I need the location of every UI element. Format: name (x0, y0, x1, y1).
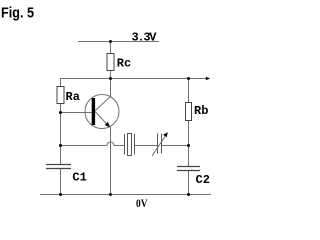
crystal X1 (125, 134, 135, 156)
svg-text:Rc: Rc (117, 57, 131, 71)
wire: right branch from collector rail to Rb (188, 79, 190, 103)
wire: collector rail (60, 78, 206, 80)
junction: crystal branch right node (187, 144, 190, 147)
capacitor C2 (177, 167, 210, 188)
wire: Rc top lead (110, 42, 112, 54)
svg-text:Rb: Rb (194, 104, 208, 118)
resistor Rb (186, 103, 209, 121)
wire: crystal to trimmer capacitor segment (135, 145, 158, 147)
svg-text:C2: C2 (196, 173, 210, 187)
svg-text:0V: 0V (136, 196, 148, 209)
junction: C1 at ground rail (59, 193, 62, 196)
wire: C1 bottom to ground rail (60, 169, 62, 195)
wire: node down to C1 (60, 146, 62, 165)
resistor Rc (107, 54, 131, 71)
wire: Ra bottom to base node (60, 104, 62, 113)
wire: Rc bottom lead to collector node (110, 71, 112, 79)
wire: C2 bottom to ground rail (188, 171, 190, 195)
transistor Q1 (85, 95, 119, 129)
junction: C2 at ground rail (187, 193, 190, 196)
junction: emitter at ground rail (109, 193, 112, 196)
wire: trimmer capacitor to right node (162, 145, 189, 147)
junction: Rc at supply rail (109, 40, 112, 43)
wire: Rb bottom to right node (188, 121, 190, 146)
wire: crystal branch left segment with hop over emitter wire (61, 142, 125, 146)
svg-text:3.3V: 3.3V (132, 30, 158, 44)
svg-text:C1: C1 (72, 171, 86, 185)
wire: 0V ground rail (40, 194, 211, 196)
junction: collector node (109, 77, 112, 80)
wire: collector vertical into transistor (110, 79, 112, 97)
junction: base node (59, 111, 62, 114)
capacitor C1 (46, 165, 87, 185)
wire: base node down to crystal-branch node (60, 113, 62, 146)
wire: base wire (61, 112, 92, 114)
trimmer capacitor (variable) (152, 132, 168, 156)
svg-text:Fig. 5: Fig. 5 (1, 4, 34, 21)
wire: right node down to C2 (188, 146, 190, 167)
wire: left branch from collector rail to Ra (60, 79, 62, 87)
wire: 3.3V supply rail (78, 41, 159, 43)
wire: emitter vertical to ground rail (110, 127, 112, 195)
junction: crystal branch left node (59, 144, 62, 147)
junction: Rb at collector rail (187, 77, 190, 80)
svg-text:Ra: Ra (66, 90, 80, 104)
resistor Ra (57, 87, 80, 104)
output arrow on collector rail (206, 77, 210, 80)
